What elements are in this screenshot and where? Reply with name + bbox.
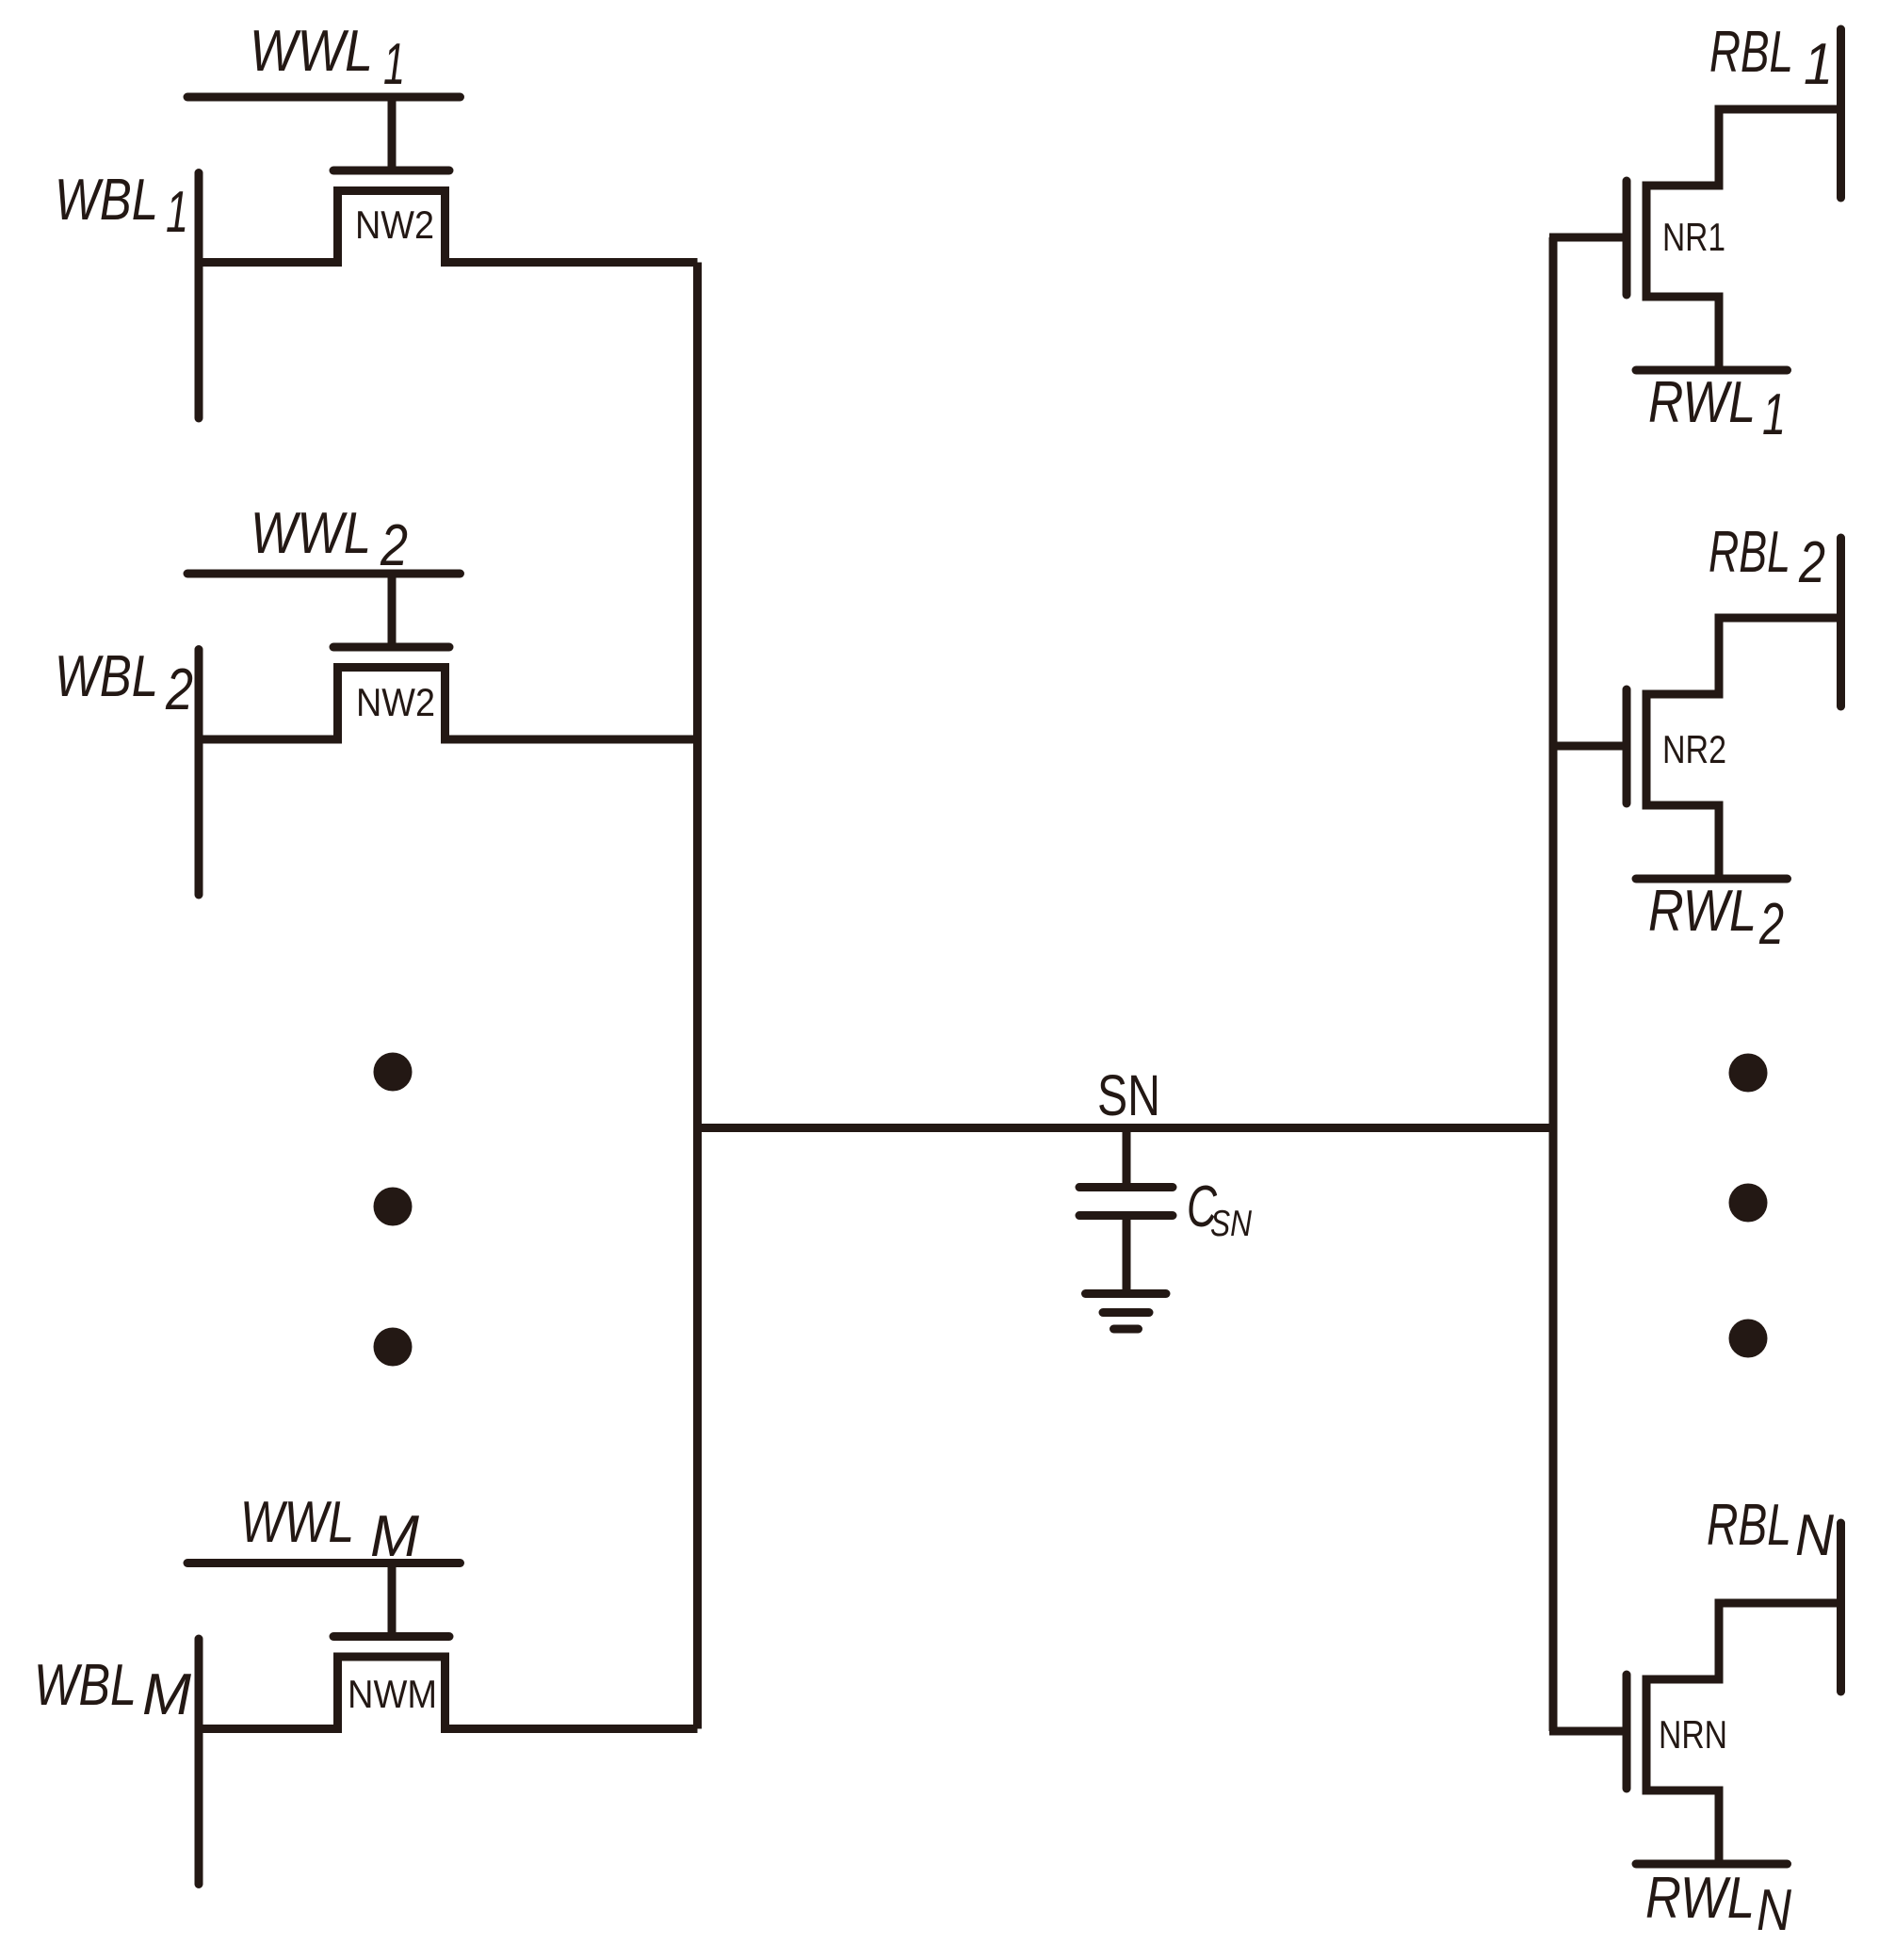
svg-text:SN: SN [1210, 1204, 1253, 1244]
svg-text:N: N [1795, 1503, 1834, 1568]
svg-text:2: 2 [1758, 892, 1784, 957]
svg-text:2: 2 [380, 513, 408, 578]
svg-text:NRN: NRN [1659, 1712, 1727, 1757]
svg-text:WBL: WBL [55, 168, 158, 233]
svg-text:RBL: RBL [1707, 1493, 1791, 1558]
svg-text:M: M [370, 1504, 419, 1569]
svg-text:NWM: NWM [348, 1672, 437, 1716]
svg-text:1: 1 [1804, 32, 1833, 97]
svg-text:NW2: NW2 [356, 680, 435, 724]
svg-text:NW2: NW2 [355, 202, 434, 247]
svg-text:N: N [1757, 1878, 1791, 1943]
svg-text:2: 2 [1798, 530, 1825, 595]
svg-text:NR2: NR2 [1662, 727, 1726, 771]
svg-text:2: 2 [165, 657, 193, 722]
svg-text:WWL: WWL [251, 501, 371, 566]
svg-text:WBL: WBL [34, 1653, 137, 1718]
svg-text:RBL: RBL [1709, 520, 1790, 585]
svg-text:1: 1 [1762, 382, 1786, 447]
svg-text:WWL: WWL [250, 19, 373, 84]
svg-text:1: 1 [383, 32, 405, 97]
svg-text:SN: SN [1097, 1063, 1160, 1127]
svg-text:RWL: RWL [1648, 879, 1757, 944]
svg-text:RBL: RBL [1709, 20, 1793, 85]
svg-text:1: 1 [166, 180, 188, 245]
svg-text:WWL: WWL [240, 1490, 354, 1555]
svg-text:RWL: RWL [1648, 370, 1756, 435]
svg-text:WBL: WBL [55, 644, 158, 709]
svg-text:RWL: RWL [1645, 1866, 1755, 1931]
svg-text:M: M [142, 1662, 191, 1727]
svg-text:NR1: NR1 [1662, 215, 1725, 259]
